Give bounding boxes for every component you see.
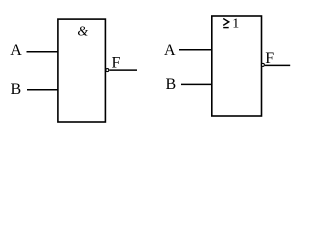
wire input A (U1) [27,51,59,53]
OR function symbol '>=1' [223,19,229,26]
svg-text:F: F [112,54,121,71]
wire input B (U1) [27,89,58,91]
wire output F (U2) [265,64,290,66]
inversion bubble (U2 output) [261,63,264,66]
NOR gate U2 body [212,16,262,116]
svg-text:B: B [11,81,22,98]
wire input A (U2) [179,49,212,51]
wire input B (U2) [181,83,212,85]
svg-text:F: F [265,50,274,67]
svg-text:B: B [166,76,177,93]
svg-text:1: 1 [232,17,239,32]
wire output F (U1) [109,69,137,71]
NAND gate U1 body [58,19,106,122]
inversion bubble (U1 output) [106,69,109,72]
svg-text:A: A [164,42,176,59]
svg-text:&: & [77,24,88,39]
svg-text:A: A [10,42,22,59]
